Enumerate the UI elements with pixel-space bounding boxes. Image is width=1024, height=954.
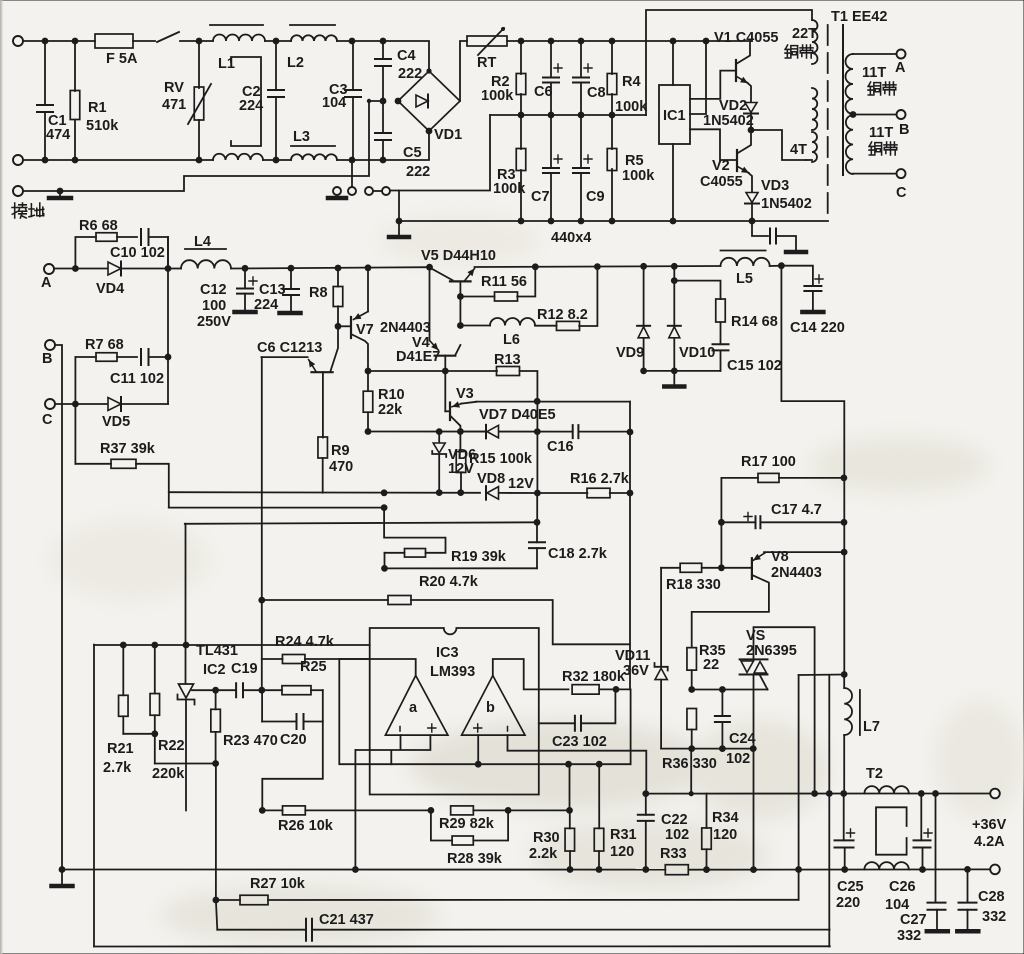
inductor L5 xyxy=(721,250,766,252)
svg-text:22T: 22T xyxy=(792,26,817,42)
op-amp a input leads xyxy=(355,735,430,764)
svg-text:R6 68: R6 68 xyxy=(79,218,118,234)
resistor R9 470 xyxy=(318,437,328,458)
svg-text:R23 470: R23 470 xyxy=(223,733,278,749)
svg-text:R21: R21 xyxy=(107,741,134,757)
capacitor C16 xyxy=(573,425,579,438)
svg-text:2N4403: 2N4403 xyxy=(771,565,822,581)
transistor V8 2N4403 xyxy=(751,558,753,579)
svg-text:L7: L7 xyxy=(863,719,880,735)
wire V3 emitter row xyxy=(476,401,630,403)
capacitor C22 102 xyxy=(645,794,647,815)
wire V6 emitter to C19 node xyxy=(261,357,263,690)
scan mottling xyxy=(50,215,1024,945)
wire primary bottom rail xyxy=(399,220,828,222)
junction V1 emitter node xyxy=(748,127,755,134)
wire R26 row xyxy=(262,809,282,811)
svg-text:VD10: VD10 xyxy=(679,345,715,361)
resistor R2 100k xyxy=(520,41,522,74)
svg-text:R18 330: R18 330 xyxy=(666,577,721,593)
wire B riser xyxy=(55,345,62,870)
inductor L1 bottom winding xyxy=(213,154,263,160)
wire ground rail long xyxy=(62,869,665,871)
svg-text:C12: C12 xyxy=(200,282,227,298)
svg-text:R31: R31 xyxy=(610,827,637,843)
wire L5 sense chain xyxy=(781,266,844,675)
svg-text:12V: 12V xyxy=(508,476,534,492)
capacitor C2 224 xyxy=(275,41,277,90)
wire VD4 VD5 link riser xyxy=(167,237,169,404)
svg-text:C5: C5 xyxy=(403,145,422,161)
svg-text:C: C xyxy=(896,185,907,201)
resistor R14 68 xyxy=(674,281,720,300)
svg-text:R29 82k: R29 82k xyxy=(439,816,495,832)
capacitor C18 2.7k xyxy=(536,493,538,522)
wire connector to R3 node xyxy=(390,115,490,191)
wire L3 to bridge bottom xyxy=(337,131,429,160)
capacitor C11 102 xyxy=(141,349,149,365)
resistor R13 xyxy=(497,367,520,376)
wire C21 bottom riser xyxy=(828,675,830,946)
svg-text:C4055: C4055 xyxy=(700,174,743,190)
wire crowbar row xyxy=(661,748,756,750)
svg-text:C19: C19 xyxy=(231,661,258,677)
ground symbol left rail xyxy=(61,870,63,885)
wire node X horizontal xyxy=(799,674,845,677)
label 接地 xyxy=(12,203,17,218)
capacitor C13 224 xyxy=(290,268,292,289)
svg-text:120: 120 xyxy=(713,827,737,843)
terminal A xyxy=(44,264,54,274)
diode VD9 xyxy=(643,266,645,326)
svg-text:R1: R1 xyxy=(88,100,107,116)
resistor R3 100k xyxy=(520,115,522,149)
ground symbol C27 xyxy=(927,929,948,934)
transformer T1 secondary winding lower 11T xyxy=(846,115,853,174)
transformer T1 primary winding 4T xyxy=(812,132,817,162)
svg-text:C11 102: C11 102 xyxy=(110,371,164,387)
svg-text:4T: 4T xyxy=(790,142,807,158)
svg-text:100k: 100k xyxy=(622,168,655,184)
wire TL431 ref xyxy=(192,689,236,691)
wire TL431 supply riser xyxy=(185,524,187,684)
svg-text:L6: L6 xyxy=(503,332,520,348)
op-amp b plus lead xyxy=(477,735,479,764)
svg-text:11T: 11T xyxy=(862,65,886,81)
wire supply row 645 xyxy=(94,644,370,646)
wire L5 output node xyxy=(770,265,782,267)
wire thyristor gate row xyxy=(692,689,768,691)
wire IC1 pins xyxy=(673,41,706,221)
svg-text:220: 220 xyxy=(836,895,860,911)
resistor R10 22k xyxy=(367,371,369,391)
capacitor C6 xyxy=(550,41,552,78)
svg-text:R22: R22 xyxy=(158,738,185,754)
IC3 box LM393 xyxy=(370,628,539,795)
capacitor C7 xyxy=(550,115,552,168)
resistor R37 39k xyxy=(74,404,76,464)
capacitor C28 332 xyxy=(967,869,969,902)
transistor V2 C4055 xyxy=(738,131,751,153)
svg-text:224: 224 xyxy=(239,98,263,114)
inductor L7 xyxy=(843,675,845,689)
bridge rectifier VD1 xyxy=(398,71,460,131)
inductor L3 xyxy=(291,154,337,160)
svg-text:332: 332 xyxy=(982,909,1006,925)
resistor R6 68 snubber xyxy=(75,237,96,269)
terminal output minus xyxy=(990,865,1000,875)
junction dots output plus row xyxy=(811,790,818,797)
resistor R23 470 xyxy=(215,690,217,709)
svg-text:2.7k: 2.7k xyxy=(103,760,132,776)
ground symbol C14 xyxy=(802,310,823,315)
wire mid rail riser to transformer top xyxy=(646,10,812,115)
resistor R30 2.2k xyxy=(569,764,571,810)
svg-text:222: 222 xyxy=(398,66,422,82)
svg-text:R25: R25 xyxy=(300,659,327,675)
capacitor C25 220 xyxy=(843,794,845,841)
core solid line xyxy=(842,25,844,175)
svg-text:102: 102 xyxy=(726,751,750,767)
svg-text:C22: C22 xyxy=(661,812,688,828)
svg-text:11T: 11T xyxy=(869,125,893,141)
resistor R34 120 xyxy=(706,794,708,828)
svg-text:222: 222 xyxy=(406,164,430,180)
svg-text:510k: 510k xyxy=(86,118,119,134)
transformer T2 lower winding xyxy=(864,862,908,869)
svg-text:2.2k: 2.2k xyxy=(529,846,558,862)
inductor L4 xyxy=(168,268,181,270)
svg-text:R14 68: R14 68 xyxy=(731,314,778,330)
svg-text:V3: V3 xyxy=(456,386,474,402)
svg-text:C10 102: C10 102 xyxy=(110,245,165,261)
resistor R17 100 xyxy=(721,477,758,479)
capacitor C12 100 250V xyxy=(244,268,246,288)
resistor R12 8.2 xyxy=(535,325,557,327)
svg-text:C6: C6 xyxy=(534,84,553,100)
svg-text:220k: 220k xyxy=(152,766,185,782)
ground symbol primary rail xyxy=(398,191,400,236)
terminal live input xyxy=(13,36,23,46)
terminal B secondary xyxy=(897,110,906,119)
svg-text:R9: R9 xyxy=(331,443,350,459)
svg-text:R8: R8 xyxy=(309,285,328,301)
terminal A secondary xyxy=(897,50,906,59)
diode VD5 xyxy=(108,398,121,411)
resistor R22 220k xyxy=(154,645,156,694)
capacitor C19 xyxy=(236,683,243,697)
ground symbol C13 xyxy=(280,311,301,316)
wire bottom AC rail xyxy=(23,159,213,161)
svg-text:VD11: VD11 xyxy=(615,648,650,664)
capacitor C27 332 xyxy=(935,794,937,903)
svg-text:4.2A: 4.2A xyxy=(974,834,1005,850)
ground symbol earth terminal xyxy=(59,191,61,196)
wire VS MT2 path xyxy=(754,627,815,793)
svg-text:474: 474 xyxy=(46,127,70,143)
wire crowbar to output row xyxy=(690,749,692,794)
svg-text:R17 100: R17 100 xyxy=(741,454,796,470)
svg-text:36V: 36V xyxy=(623,663,649,679)
svg-text:C8: C8 xyxy=(587,85,606,101)
wire feedback row 508 xyxy=(169,507,384,509)
ground symbol connector xyxy=(328,196,346,201)
core bracket L1 xyxy=(231,57,261,146)
wire DC+ rail xyxy=(507,40,750,42)
svg-text:F 5A: F 5A xyxy=(106,51,138,67)
svg-text:a: a xyxy=(409,700,418,716)
wire R9 zener clamp row xyxy=(169,491,480,494)
svg-text:100: 100 xyxy=(202,298,226,314)
terminal C secondary xyxy=(897,169,906,178)
resistor R29 82k xyxy=(451,806,474,815)
wire left drop 94 xyxy=(93,645,95,947)
svg-text:VD3: VD3 xyxy=(761,178,789,194)
svg-text:D41E7: D41E7 xyxy=(396,349,440,365)
svg-text:R26 10k: R26 10k xyxy=(278,818,334,834)
svg-text:R16 2.7k: R16 2.7k xyxy=(570,471,630,487)
svg-text:L1: L1 xyxy=(218,56,235,72)
wire bridge to RT xyxy=(460,41,467,101)
diode VD8 12V xyxy=(485,486,487,500)
svg-text:22: 22 xyxy=(703,657,719,673)
resistor R27 10k xyxy=(213,897,220,904)
varistor RV 471 xyxy=(198,41,200,88)
capacitor C5 222 xyxy=(382,101,384,133)
svg-text:440x4: 440x4 xyxy=(551,230,591,246)
wire R22 node riser bottom xyxy=(215,764,217,901)
svg-text:VS: VS xyxy=(746,628,766,644)
wire A to VD4 xyxy=(54,268,108,270)
svg-text:R30: R30 xyxy=(533,830,560,846)
transformer T2 core xyxy=(876,807,907,854)
wire R17 left riser xyxy=(720,478,722,568)
svg-text:R5: R5 xyxy=(625,153,644,169)
svg-text:R11 56: R11 56 xyxy=(481,274,527,290)
svg-text:100k: 100k xyxy=(615,99,648,115)
resistor R36 330 xyxy=(687,709,697,730)
svg-text:1N5402: 1N5402 xyxy=(761,196,812,212)
svg-text:R4: R4 xyxy=(622,74,641,90)
resistor R21 2.7k xyxy=(122,645,124,695)
wire C to VD5 xyxy=(55,403,108,405)
resistor R35 22 xyxy=(687,648,697,671)
capacitor C9 xyxy=(580,115,582,168)
transistor V3 xyxy=(444,371,446,411)
svg-text:224: 224 xyxy=(254,297,278,313)
svg-text:1N5402: 1N5402 xyxy=(703,113,754,129)
svg-text:R20 4.7k: R20 4.7k xyxy=(419,574,479,590)
svg-text:R28 39k: R28 39k xyxy=(447,851,503,867)
thyristor VS 2N6395 xyxy=(740,658,768,660)
resistor R20 4.7k xyxy=(262,599,388,601)
svg-text:+36V: +36V xyxy=(972,817,1007,833)
IC1 box xyxy=(659,85,690,144)
svg-text:470: 470 xyxy=(329,459,353,475)
svg-text:IC3: IC3 xyxy=(436,645,459,661)
wire C4C5 midpoint to earth xyxy=(23,101,383,191)
ground symbol C28 xyxy=(957,929,978,934)
resistor R1 xyxy=(74,41,76,91)
op-amp b output path xyxy=(493,659,569,689)
wire to 4T tap xyxy=(751,130,806,160)
svg-text:2N4403: 2N4403 xyxy=(380,320,431,336)
ground symbol VD10 xyxy=(673,371,675,385)
wire bottom rail xyxy=(94,945,830,947)
svg-text:IC2: IC2 xyxy=(203,662,226,678)
svg-text:L3: L3 xyxy=(293,129,310,145)
capacitor C23 102 xyxy=(539,722,575,724)
secondary center tap xyxy=(850,111,857,118)
terminal B xyxy=(45,340,55,350)
capacitor C17 4.7 xyxy=(721,521,755,523)
svg-text:V2: V2 xyxy=(712,158,730,174)
wire VD9 VD10 cathode row xyxy=(644,370,721,372)
capacitor C21 437 xyxy=(217,929,306,931)
resistor R15 100k xyxy=(459,432,461,452)
svg-text:L5: L5 xyxy=(736,271,753,287)
connector circles xyxy=(333,187,341,195)
svg-text:C26: C26 xyxy=(889,879,916,895)
svg-text:T2: T2 xyxy=(866,766,883,782)
svg-text:V1 C4055: V1 C4055 xyxy=(714,30,779,46)
svg-text:R10: R10 xyxy=(378,387,405,403)
svg-text:VD5: VD5 xyxy=(102,414,130,430)
resistor R11 56 xyxy=(457,293,464,300)
svg-text:R34: R34 xyxy=(712,810,739,826)
svg-text:R32 180k: R32 180k xyxy=(562,669,626,685)
svg-text:V8: V8 xyxy=(771,549,789,565)
svg-text:R37 39k: R37 39k xyxy=(100,441,156,457)
capacitor C3 104 xyxy=(352,41,354,90)
svg-text:471: 471 xyxy=(162,97,186,113)
resistor R5 100k xyxy=(611,115,613,149)
svg-text:22k: 22k xyxy=(378,402,403,418)
svg-text:B: B xyxy=(899,122,909,138)
svg-text:R27 10k: R27 10k xyxy=(250,876,306,892)
wire V5 emitter rail xyxy=(475,266,721,267)
svg-text:R36 330: R36 330 xyxy=(662,756,717,772)
zener VD6 12V xyxy=(438,432,440,443)
junction A rail xyxy=(165,265,172,272)
resistor R31 120 xyxy=(598,764,600,828)
resistor R32 180k xyxy=(572,685,599,695)
svg-text:104: 104 xyxy=(322,95,346,111)
switch xyxy=(133,32,213,42)
svg-text:C27: C27 xyxy=(900,912,927,928)
op-amp b xyxy=(462,676,525,736)
capacitor C26 104 xyxy=(920,794,922,841)
inductor L2 xyxy=(291,35,337,41)
svg-text:VD8: VD8 xyxy=(477,471,505,487)
svg-text:L4: L4 xyxy=(194,234,211,250)
svg-text:C6 C1213: C6 C1213 xyxy=(257,340,322,356)
svg-text:R13: R13 xyxy=(494,352,521,368)
diode VD3 1N5402 xyxy=(746,193,758,203)
scan edge shade xyxy=(0,0,3,954)
svg-text:332: 332 xyxy=(897,928,921,944)
ground symbol snubber xyxy=(786,250,806,255)
svg-text:RV: RV xyxy=(164,80,184,96)
svg-text:C28: C28 xyxy=(978,889,1005,905)
svg-text:R15 100k: R15 100k xyxy=(469,451,533,467)
svg-text:100k: 100k xyxy=(493,181,526,197)
svg-text:C18 2.7k: C18 2.7k xyxy=(548,546,608,562)
svg-text:C7: C7 xyxy=(531,189,550,205)
resistor R25 xyxy=(282,686,311,695)
snubber capacitor xyxy=(752,221,768,236)
op-amp a xyxy=(385,676,448,736)
terminal C xyxy=(45,399,55,409)
wire R25 C20 right riser xyxy=(262,690,323,810)
svg-text:VD4: VD4 xyxy=(96,281,124,297)
svg-text:C16: C16 xyxy=(547,439,574,455)
transformer T2 upper winding xyxy=(864,786,908,793)
transistor V7 2N4403 xyxy=(367,268,369,312)
svg-text:V5 D44H10: V5 D44H10 xyxy=(421,248,496,264)
svg-text:R12 8.2: R12 8.2 xyxy=(537,307,588,323)
wire row 764 up merge xyxy=(630,689,632,764)
op-amp b minus lead to sense xyxy=(508,735,647,794)
svg-text:C17 4.7: C17 4.7 xyxy=(771,502,822,518)
svg-text:C15 102: C15 102 xyxy=(727,358,782,374)
resistor R8 xyxy=(337,268,339,287)
core dashed line xyxy=(827,25,829,220)
resistor R4 100k xyxy=(611,41,613,74)
svg-text:C23 102: C23 102 xyxy=(552,734,607,750)
transformer T1 secondary winding upper 11T xyxy=(853,53,896,55)
terminal earth input xyxy=(13,186,23,196)
wire output plus row xyxy=(646,793,989,795)
wire a-minus to ground rail xyxy=(354,750,356,870)
wire mid rail xyxy=(490,114,646,116)
svg-text:L2: L2 xyxy=(287,55,304,71)
ground symbol C12 xyxy=(235,310,256,315)
svg-text:104: 104 xyxy=(885,897,909,913)
zener VD11 36V xyxy=(660,568,662,667)
transistor V4 D41E7 xyxy=(429,267,431,340)
svg-text:b: b xyxy=(486,700,495,716)
shunt regulator IC2 TL431 xyxy=(179,684,194,698)
svg-text:R19 39k: R19 39k xyxy=(451,549,507,565)
transistor V1 C4055 xyxy=(737,41,750,64)
svg-text:C14 220: C14 220 xyxy=(790,320,845,336)
capacitor C24 102 xyxy=(721,690,723,717)
junction dots AC input xyxy=(42,38,49,45)
svg-text:R33: R33 xyxy=(660,846,687,862)
svg-text:120: 120 xyxy=(610,844,634,860)
wire top AC rail left xyxy=(23,40,95,42)
capacitor C8 xyxy=(580,41,582,78)
svg-text:B: B xyxy=(42,351,52,367)
diode VD4 xyxy=(108,262,121,275)
capacitor C4 222 xyxy=(382,41,384,59)
svg-text:102: 102 xyxy=(665,827,689,843)
svg-text:250V: 250V xyxy=(197,314,231,330)
resistor R18 330 xyxy=(661,567,680,569)
resistor R33 xyxy=(665,865,688,875)
fuse F 5A xyxy=(95,34,133,48)
svg-text:LM393: LM393 xyxy=(430,664,475,680)
svg-text:T1 EE42: T1 EE42 xyxy=(831,9,887,25)
terminal neutral input xyxy=(13,155,23,165)
wire sense row 522 xyxy=(185,522,537,524)
diode VD10 xyxy=(673,266,675,326)
wire ground rail right xyxy=(688,868,990,870)
capacitor C1 xyxy=(44,41,46,105)
capacitor C14 220 xyxy=(781,266,813,286)
transistor V5 D44H10 xyxy=(431,268,453,280)
